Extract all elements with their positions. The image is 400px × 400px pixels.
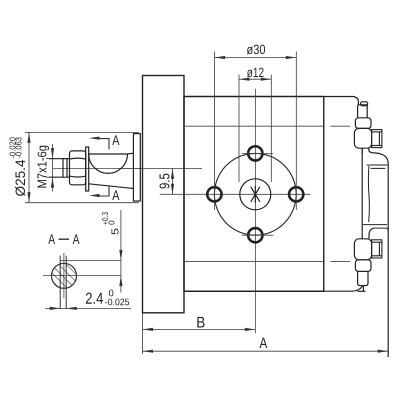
shaft centerline: [53, 167, 143, 169]
stem left line: [361, 148, 363, 233]
svg-text:2.4: 2.4: [85, 291, 103, 308]
bottom boss flange lines: [363, 224, 387, 226]
thread stub M7: [49, 158, 70, 160]
dim line A: [143, 350, 389, 352]
top boss S-curve: [369, 151, 388, 164]
dim line Ø12: [239, 78, 271, 80]
pump body rectangle: [184, 97, 324, 292]
dimension 2.4 0/-0.025: [45, 307, 131, 310]
svg-text:5: 5: [109, 228, 121, 235]
bolt hole bottom: [248, 228, 262, 242]
svg-text:A: A: [73, 231, 80, 247]
boss flange upper lines: [367, 164, 388, 166]
rear cover bottom edge with foot fillet: [184, 286, 363, 291]
ext lines Ø30: [214, 52, 216, 211]
flat extension line: [60, 259, 121, 261]
bottom port: ferrule: [355, 260, 371, 272]
shaft axis ext line: [120, 167, 202, 169]
svg-text:A: A: [112, 187, 120, 203]
svg-text:M7x1-6g: M7x1-6g: [36, 145, 50, 189]
milled flat (spoon) arc: [89, 154, 128, 173]
section circle with hatching: [52, 263, 77, 288]
top port: tube cap: [361, 102, 368, 106]
top port: coupling nut: [354, 128, 371, 148]
svg-text:A: A: [112, 132, 120, 148]
bottom port: hex face: [372, 240, 382, 258]
horizontal centerline: [160, 193, 310, 195]
shaft bore circle (Ø12): [240, 179, 271, 210]
dimension 5 +0.3/0: [119, 210, 122, 293]
Ø25.4 dimension: [25, 132, 139, 202]
top port: tube stub: [358, 105, 368, 118]
bolt hole right: [289, 187, 303, 201]
vertical centerline of section: [63, 253, 65, 298]
horizontal centerline of section: [43, 275, 121, 277]
svg-text:-0.063: -0.063: [14, 136, 23, 158]
svg-text:ø12: ø12: [247, 65, 264, 80]
svg-text:B: B: [196, 315, 205, 332]
dim line 9.5: [172, 168, 174, 194]
label 5 +0.3/0: [100, 212, 121, 235]
bolt hole top: [248, 146, 262, 160]
right outer edge: [387, 164, 389, 357]
washer: [86, 147, 89, 191]
top hole centerline tick: [242, 152, 273, 154]
bottom port: neck left: [361, 233, 363, 239]
svg-text:0: 0: [107, 220, 117, 225]
svg-text:ø30: ø30: [246, 42, 265, 57]
tapered shaft end: [89, 152, 134, 155]
bottom port: tube stub: [358, 271, 368, 285]
rear cover top edge: [324, 97, 359, 105]
pilot face plate: [133, 134, 140, 201]
key slot lines: [60, 256, 66, 309]
ext lines Ø12: [238, 75, 240, 183]
section arrow bottom: [89, 186, 109, 198]
vertical centerline: [254, 89, 256, 333]
bottom boss S-curve: [369, 228, 374, 239]
bottom port: coupling nut: [354, 239, 371, 260]
dim line Ø30: [215, 57, 297, 59]
label Ø25.4 -0.020 -0.063: [8, 136, 28, 196]
hex nut: [70, 151, 86, 185]
top port: ferrule: [355, 118, 371, 129]
top port centerline across front view: [185, 125, 323, 127]
top port: hex face: [372, 130, 382, 148]
ext line flange left: [142, 313, 144, 354]
svg-text:A: A: [259, 335, 267, 352]
dim line B: [143, 328, 256, 330]
cast mid line: [367, 166, 370, 222]
section arrow top: [89, 137, 109, 150]
center mark asterisk: [251, 186, 260, 202]
bolt circle (Ø30 BCD): [214, 153, 296, 235]
bottom hole centerline tick: [242, 234, 273, 236]
svg-text:9.5: 9.5: [157, 173, 173, 189]
top port: neck: [361, 148, 363, 154]
bottom port centerline across front view: [185, 260, 323, 262]
svg-text:A: A: [48, 231, 55, 247]
mounting flange plate: [143, 76, 185, 313]
bolt hole left: [207, 187, 221, 201]
M7x1-6g dimension: [46, 144, 62, 192]
svg-text:Ø25.4: Ø25.4: [12, 159, 28, 196]
svg-text:-0.025: -0.025: [105, 297, 130, 308]
